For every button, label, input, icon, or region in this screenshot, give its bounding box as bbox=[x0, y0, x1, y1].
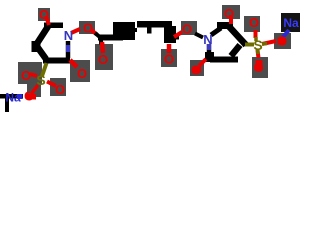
chain right drop G bbox=[164, 26, 176, 43]
chain bar A bbox=[98, 35, 123, 41]
bond O5-Na1 (black bar) bbox=[0, 94, 23, 99]
bond N1-O6 (red) bbox=[71, 29, 80, 33]
bond C4''-C5'' (right ring bottom bar) bbox=[210, 57, 238, 63]
bond C4-C5 (left ring bottom bar) bbox=[43, 58, 70, 64]
bond N1-C5 upper blue part bbox=[66, 45, 70, 52]
gray box behind O1 (left ring top oxygen) bbox=[38, 8, 50, 21]
svg-text:S: S bbox=[36, 72, 45, 88]
bond C2''=O10 (red) bbox=[229, 15, 233, 24]
bond C3''-C4'' diagonal bbox=[231, 45, 240, 56]
svg-text:O: O bbox=[77, 66, 87, 81]
bond C3''-S2 (olive) bbox=[245, 43, 254, 47]
bond N2-C2'' (right ring top) bbox=[211, 28, 221, 35]
red fill over O14 bbox=[256, 60, 263, 70]
bond C5''=O11 (red) bbox=[199, 59, 206, 66]
blue fragment near O5 bbox=[17, 94, 23, 99]
chain top bar E bbox=[137, 21, 172, 28]
gray box behind O10 (right ring top oxygen) bbox=[222, 5, 240, 19]
chain tab F bbox=[147, 28, 152, 34]
svg-text:O: O bbox=[21, 68, 31, 83]
svg-text:O: O bbox=[182, 22, 192, 37]
svg-text:O: O bbox=[224, 6, 234, 21]
svg-text:O: O bbox=[83, 21, 93, 36]
bond S2=O14 (red bottom, olive stub) bbox=[258, 50, 259, 58]
bond C4-S1 (olive) bbox=[42, 63, 47, 76]
C3 vertex block bbox=[32, 41, 41, 52]
gray box behind O4 (right-down of S1) bbox=[50, 78, 66, 96]
bond N2-C5'' blue stub bbox=[207, 44, 211, 50]
ester C2 vertex bbox=[174, 35, 179, 40]
bond C3-C4 (left ring lower-left diagonal) bbox=[36, 45, 46, 59]
right ring C5'' junction block bbox=[205, 52, 214, 62]
gray box behind O14 (below S2) bbox=[252, 57, 268, 78]
svg-text:Na: Na bbox=[283, 16, 299, 30]
svg-text:N: N bbox=[203, 32, 212, 47]
bond S1=O3 (red) bbox=[30, 74, 37, 76]
svg-text:N: N bbox=[64, 28, 73, 43]
black box behind Na2 bbox=[281, 13, 300, 32]
gray box behind O7 (left ester C=O) bbox=[95, 44, 113, 70]
bond N1-C5 (left ring right side) bbox=[66, 41, 71, 58]
bond O9-N2 (black) bbox=[195, 34, 203, 38]
gray box behind O5 bond region bbox=[27, 84, 41, 97]
svg-text:S: S bbox=[253, 37, 262, 53]
bond S1-O5 (red) bbox=[32, 85, 38, 93]
bond C2-C3 (left ring upper-left diagonal) bbox=[36, 27, 48, 46]
bond C2''-C3'' (right ring diagonal) bbox=[229, 27, 246, 46]
bond C2-N1 (left ring top bar) bbox=[44, 23, 63, 29]
svg-text:O: O bbox=[39, 7, 49, 22]
gray box behind O12 (above S2) bbox=[244, 16, 260, 32]
gray box behind O6 (left ester O) bbox=[79, 21, 95, 34]
vertical black bar below Na1 bbox=[5, 97, 9, 112]
red fill over O11 bbox=[193, 67, 201, 73]
chain bridge D bbox=[131, 28, 137, 32]
ester C1 vertex bbox=[99, 40, 103, 45]
svg-text:O: O bbox=[98, 52, 108, 67]
gray box behind O9 (right ester O) bbox=[181, 21, 197, 35]
bond N2-C5'' (right ring left side) bbox=[207, 44, 212, 57]
bond esterC2-O9 (red) bbox=[174, 32, 182, 37]
gray box behind O11 (right ring C=O oxygen) bbox=[190, 60, 204, 76]
gray box behind O2 (left ring C5=O oxygen) bbox=[70, 60, 90, 82]
bond O1=C2 (red double bond) bbox=[46, 16, 49, 25]
bond O6-esterC1 (black) bbox=[91, 30, 97, 35]
bond esterC2=O8 (red) bbox=[167, 44, 172, 53]
svg-text:O: O bbox=[164, 52, 174, 67]
gray box behind O3 / S1 region bbox=[18, 62, 42, 84]
gray box behind O8 (right ester C=O) bbox=[161, 49, 177, 67]
bond O13-Na2 (blue) bbox=[283, 30, 289, 37]
bond S1=O4 (red) bbox=[47, 82, 56, 87]
svg-text:O: O bbox=[55, 82, 65, 97]
bond S2=O12 (red top, olive stub) bbox=[254, 30, 258, 38]
svg-text:Na: Na bbox=[5, 91, 21, 105]
bond S2-O13 (red, olive stub) bbox=[262, 41, 276, 44]
chain blob B bbox=[113, 22, 135, 40]
red fill over O13 bbox=[278, 38, 286, 45]
svg-text:O: O bbox=[249, 15, 259, 30]
red fill over O5 bbox=[26, 94, 36, 100]
gray box behind O13 (right of S2) bbox=[274, 33, 291, 49]
bond C5=O2 (red) bbox=[70, 60, 77, 67]
bond esterC1=O7 (red) bbox=[102, 42, 103, 53]
chain foot H bbox=[166, 38, 176, 43]
